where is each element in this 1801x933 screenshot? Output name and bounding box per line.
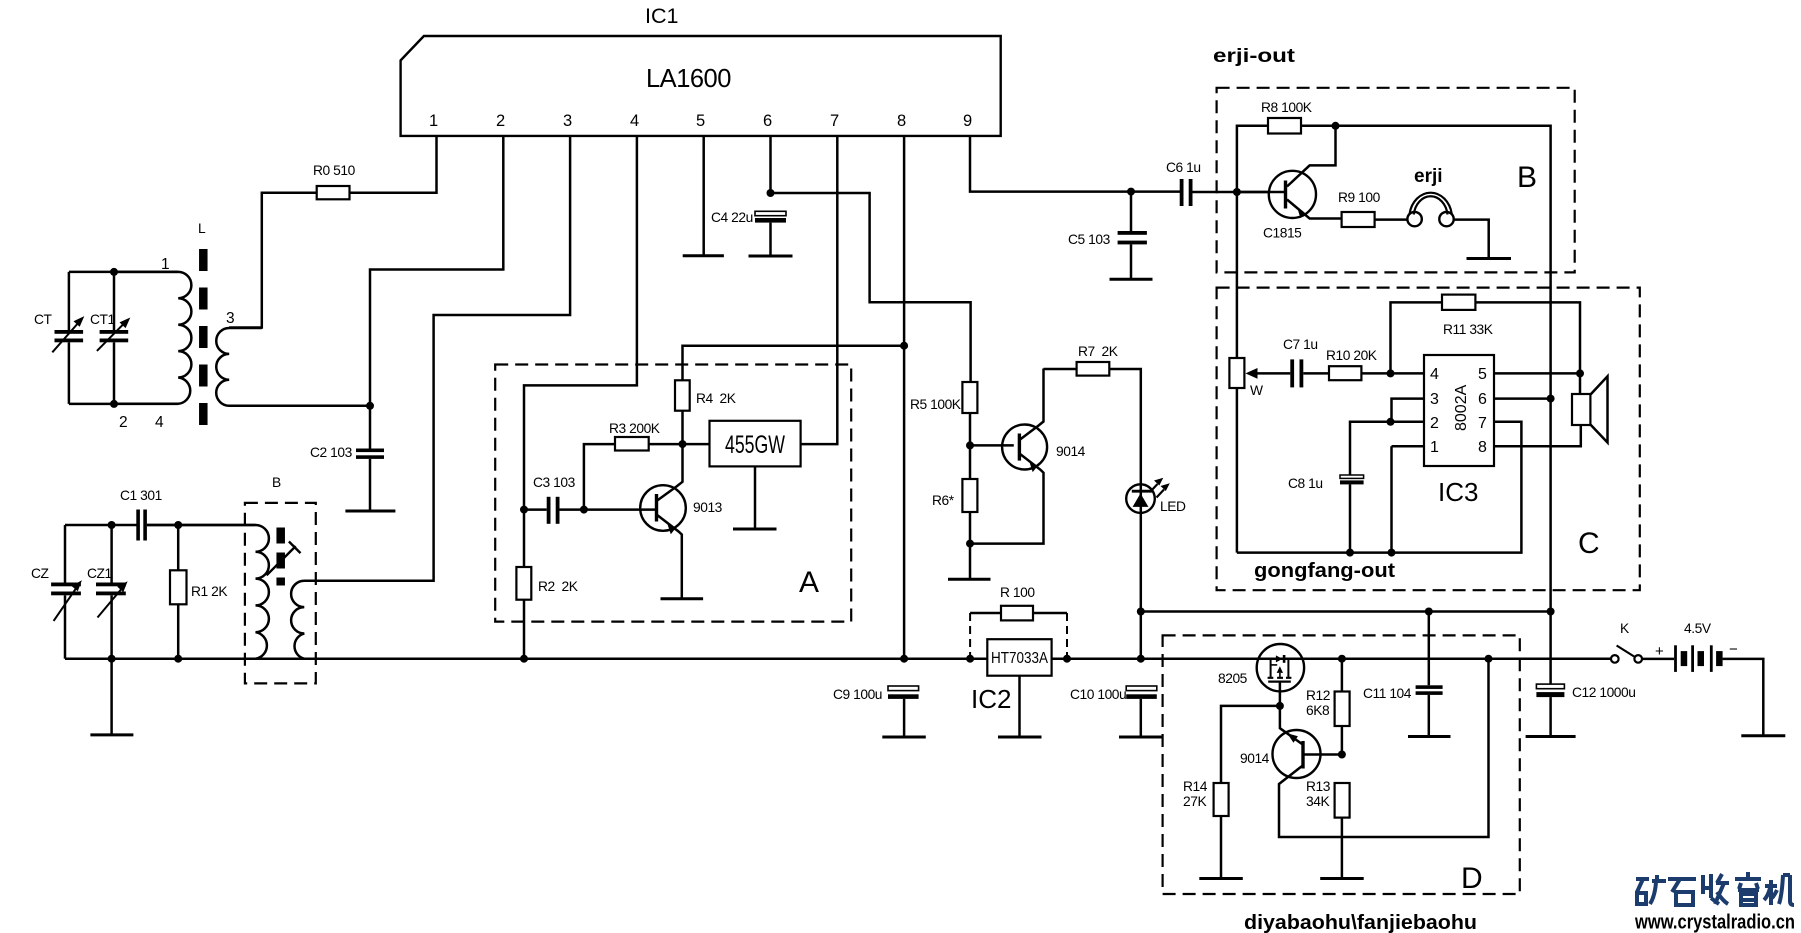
svg-text:R4 2K: R4 2K xyxy=(696,391,737,406)
oscillator tank top wire xyxy=(65,524,137,527)
ground pin5 xyxy=(683,254,724,257)
rail 610 xyxy=(1141,610,1551,613)
node C6 right / B input xyxy=(1233,188,1241,196)
node rail610/C11 xyxy=(1425,608,1433,616)
svg-text:1: 1 xyxy=(429,112,438,130)
svg-text:7: 7 xyxy=(830,112,839,130)
svg-text:C8 1u: C8 1u xyxy=(1288,476,1323,491)
node CT1 top xyxy=(110,268,118,276)
node 8205 source xyxy=(1276,702,1284,710)
svg-text:8002A: 8002A xyxy=(1453,384,1470,431)
wire 8002A pin3 xyxy=(1392,399,1425,422)
antenna tank bottom wire xyxy=(69,403,178,406)
svg-text:C2 103: C2 103 xyxy=(310,445,353,460)
ground R13 xyxy=(1320,877,1364,880)
node pin5/R11/speaker xyxy=(1576,369,1584,377)
svg-text:www.crystalradio.cn: www.crystalradio.cn xyxy=(1634,912,1795,933)
resistor R5 xyxy=(910,382,977,445)
resistor R13 xyxy=(1306,779,1350,879)
speaker xyxy=(1572,373,1608,442)
svg-text:4: 4 xyxy=(155,414,164,431)
node R6 bottom / emitter return xyxy=(966,540,974,548)
wire 8002A pin6 node xyxy=(1547,395,1555,403)
svg-text:R6*: R6* xyxy=(932,493,955,508)
svg-text:3: 3 xyxy=(226,310,235,327)
transformer B core adjust arrow xyxy=(267,542,301,576)
ground C10 xyxy=(1119,736,1163,739)
wire pin9 right to C6 xyxy=(970,136,1180,192)
wire source to R14 xyxy=(1221,706,1280,783)
capacitor C3 xyxy=(524,475,657,524)
IC U1: IC1 LA1600 body xyxy=(401,4,1001,136)
potentiometer W xyxy=(1229,358,1290,553)
node CZ1 top xyxy=(108,521,116,529)
node emitter return rail xyxy=(1485,655,1493,663)
capacitor C8 xyxy=(1288,475,1364,553)
svg-text:C9 100u: C9 100u xyxy=(833,687,882,702)
ground C4 xyxy=(749,255,793,258)
internal gnd rail of C xyxy=(1237,422,1522,553)
svg-text:R5 100K: R5 100K xyxy=(910,397,962,412)
node R1 bottom xyxy=(174,655,182,663)
IC 8002A xyxy=(1424,355,1494,466)
wire pin6 line down to rail610 xyxy=(1549,399,1552,612)
svg-text:2: 2 xyxy=(119,414,128,431)
svg-text:455GW: 455GW xyxy=(725,431,785,459)
node R3 left / base xyxy=(580,506,588,514)
ground 9013 emitter xyxy=(661,597,704,600)
watermark logo xyxy=(1636,872,1794,905)
svg-text:9014: 9014 xyxy=(1240,751,1270,766)
svg-text:6K8: 6K8 xyxy=(1306,703,1330,718)
svg-text:R9 100: R9 100 xyxy=(1338,190,1381,205)
wire pin5 down xyxy=(702,136,705,256)
svg-text:C7 1u: C7 1u xyxy=(1283,337,1318,352)
svg-text:C6 1u: C6 1u xyxy=(1166,160,1201,175)
svg-text:C1 301: C1 301 xyxy=(120,488,162,503)
capacitor C9 xyxy=(833,686,919,737)
svg-text:2: 2 xyxy=(496,112,505,130)
ground C12 xyxy=(1526,735,1576,738)
svg-text:C12 1000u: C12 1000u xyxy=(1572,685,1635,700)
dashed box D section xyxy=(1163,635,1520,894)
resistor R10 xyxy=(1326,348,1424,380)
resistor R1 xyxy=(170,525,228,659)
resistor R11 xyxy=(1391,295,1581,374)
svg-text:R12: R12 xyxy=(1306,688,1330,703)
node R12/R13/base xyxy=(1338,751,1346,759)
node pin4/R10/R11 xyxy=(1387,369,1395,377)
svg-text:B: B xyxy=(1517,161,1537,194)
svg-text:R3 200K: R3 200K xyxy=(609,421,661,436)
resistor R3 xyxy=(584,421,683,510)
transformer B secondary winding xyxy=(291,581,524,659)
svg-text:R1 2K: R1 2K xyxy=(191,584,228,599)
wire K to battery xyxy=(1642,658,1674,661)
node R4/R3/455GW/collector xyxy=(679,440,687,448)
node C4 junction xyxy=(767,189,775,197)
wire C1 to B primary xyxy=(147,524,256,527)
transformer L secondary winding xyxy=(216,328,370,406)
wire battery to ground xyxy=(1723,659,1764,736)
svg-text:W: W xyxy=(1250,383,1263,398)
svg-text:4.5V: 4.5V xyxy=(1684,621,1712,636)
ground C2 xyxy=(345,510,395,513)
node LED/rail610 xyxy=(1137,608,1145,616)
svg-text:R0 510: R0 510 xyxy=(313,163,356,178)
svg-text:C3 103: C3 103 xyxy=(533,475,576,490)
node LED/rail658 xyxy=(1137,655,1145,663)
resistor R7 xyxy=(1044,344,1141,659)
main rail bottom xyxy=(256,657,1612,660)
node R2 bottom rail xyxy=(520,655,528,663)
svg-text:3: 3 xyxy=(1430,391,1439,408)
svg-text:C1815: C1815 xyxy=(1263,226,1302,241)
svg-text:34K: 34K xyxy=(1306,794,1330,809)
ground R14 xyxy=(1199,877,1243,880)
wire pin6 to C4 node xyxy=(769,136,772,193)
wire pin2 node down to rail xyxy=(1391,422,1425,553)
svg-text:R 100: R 100 xyxy=(1000,585,1035,600)
node L4/C2 xyxy=(366,402,374,410)
capacitor C10 xyxy=(1070,686,1157,737)
ground R6 xyxy=(948,578,991,581)
variable capacitor CZ xyxy=(31,525,82,659)
transistor Q C1815 xyxy=(1237,126,1342,241)
wire pin2 down-left-down to C2 node xyxy=(370,136,503,406)
svg-text:27K: 27K xyxy=(1183,794,1207,809)
wire 8002A pin2 to C8 xyxy=(1350,422,1424,475)
dashed box C section xyxy=(1217,288,1640,591)
wire C4 node to R5 top xyxy=(771,193,971,382)
earphone erji xyxy=(1407,166,1453,226)
svg-text:5: 5 xyxy=(1478,366,1487,383)
resistor R14 xyxy=(1183,779,1229,879)
svg-text:+: + xyxy=(1655,643,1664,660)
switch K xyxy=(1611,621,1642,663)
ceramic filter 455GW xyxy=(683,421,801,529)
capacitor C1 xyxy=(120,488,162,541)
svg-text:diyabaohu\fanjiebaohu: diyabaohu\fanjiebaohu xyxy=(1244,912,1477,933)
svg-text:L: L xyxy=(198,221,206,236)
capacitor C5 xyxy=(1068,192,1147,280)
svg-text:CT1: CT1 xyxy=(90,312,115,327)
ground 455GW xyxy=(733,528,777,531)
svg-text:R10 20K: R10 20K xyxy=(1326,348,1378,363)
svg-text:LA1600: LA1600 xyxy=(646,65,731,93)
resistor R4 xyxy=(675,380,737,444)
node pin2/pin3 xyxy=(1387,418,1395,426)
svg-text:K: K xyxy=(1620,621,1630,636)
ground C9 xyxy=(882,736,926,739)
svg-text:R11 33K: R11 33K xyxy=(1443,322,1494,337)
svg-text:R14: R14 xyxy=(1183,779,1208,794)
ground C11 xyxy=(1408,735,1451,738)
svg-text:CT: CT xyxy=(34,312,53,327)
svg-text:9013: 9013 xyxy=(693,500,723,515)
node IC2 right xyxy=(1063,655,1071,663)
resistor R9 xyxy=(1338,190,1407,227)
svg-text:C5 103: C5 103 xyxy=(1068,232,1111,247)
node IC2 left xyxy=(966,655,974,663)
svg-text:R2 2K: R2 2K xyxy=(538,579,579,594)
wire pin4 into box A xyxy=(524,136,637,510)
svg-text:C11 104: C11 104 xyxy=(1363,686,1412,701)
dashed link IC2 left xyxy=(969,613,971,659)
node R1 top xyxy=(174,521,182,529)
svg-text:A: A xyxy=(799,566,819,599)
wire 8002A pin5 to speaker xyxy=(1494,372,1580,375)
svg-text:1: 1 xyxy=(161,256,170,273)
wire pin7 to 455GW right xyxy=(801,136,838,444)
svg-text:−: − xyxy=(1729,641,1738,658)
wire pin8 down to rail xyxy=(903,136,906,659)
svg-text:3: 3 xyxy=(563,112,572,130)
regulator IC2 HT7033A xyxy=(971,639,1052,737)
node C9 rail xyxy=(900,655,908,663)
svg-text:8: 8 xyxy=(897,112,906,130)
transformer L primary winding xyxy=(114,272,191,404)
capacitor C4 xyxy=(711,210,786,256)
svg-text:C: C xyxy=(1578,527,1600,560)
capacitor C7 xyxy=(1283,337,1329,387)
svg-text:9014: 9014 xyxy=(1056,444,1086,459)
node rail610/C12 xyxy=(1547,608,1555,616)
resistor R6 xyxy=(932,445,977,579)
capacitor C2 xyxy=(310,406,384,511)
transistor Q 9013 xyxy=(640,444,722,599)
svg-text:IC1: IC1 xyxy=(645,4,678,28)
node R8 right xyxy=(1332,122,1340,130)
svg-text:7: 7 xyxy=(1478,415,1487,432)
svg-text:CZ1: CZ1 xyxy=(87,566,112,581)
svg-text:R8 100K: R8 100K xyxy=(1261,100,1313,115)
resistor R2 xyxy=(516,510,578,659)
svg-text:LED: LED xyxy=(1160,499,1186,514)
ground battery xyxy=(1741,734,1785,737)
transformer B dashed box xyxy=(245,503,316,684)
node CZ1 bottom xyxy=(108,655,116,663)
wire B node down through C box to W xyxy=(1236,192,1239,358)
svg-text:6: 6 xyxy=(1478,391,1487,408)
ground C5 xyxy=(1110,278,1153,281)
ground IC2 xyxy=(998,736,1042,739)
svg-text:HT7033A: HT7033A xyxy=(991,650,1048,667)
svg-text:6: 6 xyxy=(763,112,772,130)
transformer B primary winding xyxy=(147,525,269,659)
node R12 rail xyxy=(1338,655,1346,663)
resistor R bypass 100 xyxy=(970,585,1067,620)
LED D1 xyxy=(1126,478,1186,514)
wire pin1 to R0 xyxy=(350,136,437,193)
svg-text:1: 1 xyxy=(1430,439,1439,456)
svg-text:9: 9 xyxy=(963,112,972,130)
battery 4.5V xyxy=(1655,621,1738,672)
ground CZ tank xyxy=(90,659,133,735)
node C8 rail xyxy=(1346,549,1354,557)
svg-text:CZ: CZ xyxy=(31,566,49,581)
svg-text:D: D xyxy=(1461,862,1483,895)
dashed box B section xyxy=(1217,88,1575,273)
wire erji to ground xyxy=(1454,220,1489,259)
wire 8002A pin8 to speaker bottom xyxy=(1494,425,1581,446)
svg-text:IC3: IC3 xyxy=(1438,477,1478,507)
svg-text:4: 4 xyxy=(1430,366,1439,383)
svg-text:R7 2K: R7 2K xyxy=(1078,344,1119,359)
dashed box A xyxy=(495,365,851,622)
resistor R8 xyxy=(1237,100,1336,192)
svg-text:C10 100u: C10 100u xyxy=(1070,687,1126,702)
transistor Q 9014 (AGC) xyxy=(970,369,1086,544)
antenna tank top wire xyxy=(69,271,178,274)
svg-text:8: 8 xyxy=(1478,439,1487,456)
svg-text:B: B xyxy=(272,475,281,490)
node C5 junction xyxy=(1127,188,1135,196)
wire R4 top to pin8 line xyxy=(683,346,905,381)
transformer B core xyxy=(276,528,285,586)
capacitor C6 xyxy=(1166,160,1269,206)
svg-text:2: 2 xyxy=(1430,415,1439,432)
wire pin3 to B secondary top xyxy=(304,136,570,581)
resistor R0 xyxy=(313,163,356,199)
transistor Q 9014 (protection) xyxy=(1240,659,1489,837)
capacitor C11 xyxy=(1363,612,1443,737)
node pin8/R4 xyxy=(900,342,908,350)
transformer L core xyxy=(199,249,208,425)
capacitor C12 xyxy=(1536,684,1635,736)
wire base 9014a xyxy=(970,444,1014,447)
svg-text:erji: erji xyxy=(1414,166,1443,187)
svg-text:C4 22u: C4 22u xyxy=(711,210,753,225)
node pin1 rail xyxy=(1388,549,1396,557)
variable capacitor CT xyxy=(34,272,84,404)
wire C12 line down xyxy=(1549,612,1552,685)
svg-text:5: 5 xyxy=(696,112,705,130)
svg-text:IC2: IC2 xyxy=(971,684,1011,714)
variable capacitor CT1 xyxy=(90,272,130,404)
variable capacitor CZ1 xyxy=(87,525,128,659)
svg-text:8205: 8205 xyxy=(1218,671,1248,686)
svg-text:gongfang-out: gongfang-out xyxy=(1254,560,1395,582)
svg-text:R13: R13 xyxy=(1306,779,1331,794)
wire base to divider xyxy=(1303,753,1342,756)
svg-text:4: 4 xyxy=(630,112,639,130)
node CT1 bottom xyxy=(110,400,118,408)
wire R0 to L pin3 xyxy=(229,193,317,328)
MOSFET 8205 xyxy=(1218,644,1304,706)
dashed link IC2 right xyxy=(1066,613,1068,659)
resistor R12 xyxy=(1306,659,1350,755)
oscillator tank bottom wire / main rail left start xyxy=(65,657,256,660)
wire R8 node to pin6 line xyxy=(1336,126,1551,399)
node R5/R6/base xyxy=(966,441,974,449)
svg-text:erji-out: erji-out xyxy=(1213,46,1296,67)
node C3/base xyxy=(520,506,528,514)
ground erji xyxy=(1467,257,1512,260)
